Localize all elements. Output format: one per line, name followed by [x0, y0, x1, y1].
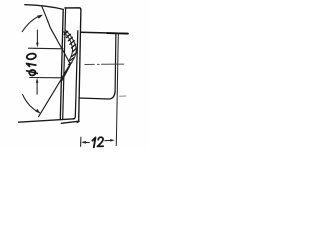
extension line at shaft end (for dim 12) [116, 34, 118, 145]
flange bottom second edge [61, 121, 79, 123]
glyph phi [29, 69, 36, 75]
angle dimension arc, lower segment [23, 95, 40, 113]
angle arc lower arrowhead [35, 109, 40, 114]
dim 12 right arrow [105, 139, 111, 141]
flange right face (vertical A) [73, 31, 78, 119]
dim phi10 upper arrow [36, 30, 38, 43]
section band left rail [64, 32, 73, 62]
flange left face outer edge [60, 10, 63, 120]
glyph 1 [27, 64, 36, 67]
section leaf inner strokes [61, 66, 70, 80]
glyph 2 [97, 137, 103, 146]
top slanted reference line (angle leg, upper) [25, 5, 64, 10]
shaft top edge overshoot (darker) [107, 32, 128, 35]
faint stub right of end face [120, 95, 126, 97]
countersink upper cone edge [42, 6, 71, 64]
dim 12 left arrow [83, 141, 89, 143]
dim phi10 lower arrow [36, 82, 38, 95]
glyph 0 [26, 53, 36, 60]
dim 12 left extension tick [80, 137, 82, 146]
section hatch strokes [64, 31, 76, 64]
angle dimension arc, upper segment [22, 15, 41, 31]
dim phi10 text (vector glyphs, rotated) [26, 53, 37, 76]
dim phi10 upper extension line [29, 47, 64, 50]
flange left face inner edge [63, 8, 66, 119]
dim 12 text (vector glyphs) [92, 137, 103, 147]
flange top edge [65, 8, 81, 10]
countersink lower cone edge [39, 64, 71, 116]
shaft end face [114, 34, 117, 91]
collar right edge (vertical B) [77, 10, 81, 123]
bottom slanted line (flange bottom + angle leg, lower) [19, 119, 75, 122]
angle arc upper arrowhead [37, 15, 43, 19]
dim phi10 lower extension line [30, 77, 62, 79]
shaft top edge with overshoot [81, 32, 128, 33]
shaft bottom edge with rounded end [79, 92, 115, 99]
section band right rail (wavy break line) [62, 30, 77, 81]
glyph 1 [92, 138, 95, 148]
centerline (dash-dot axis) [85, 63, 124, 65]
